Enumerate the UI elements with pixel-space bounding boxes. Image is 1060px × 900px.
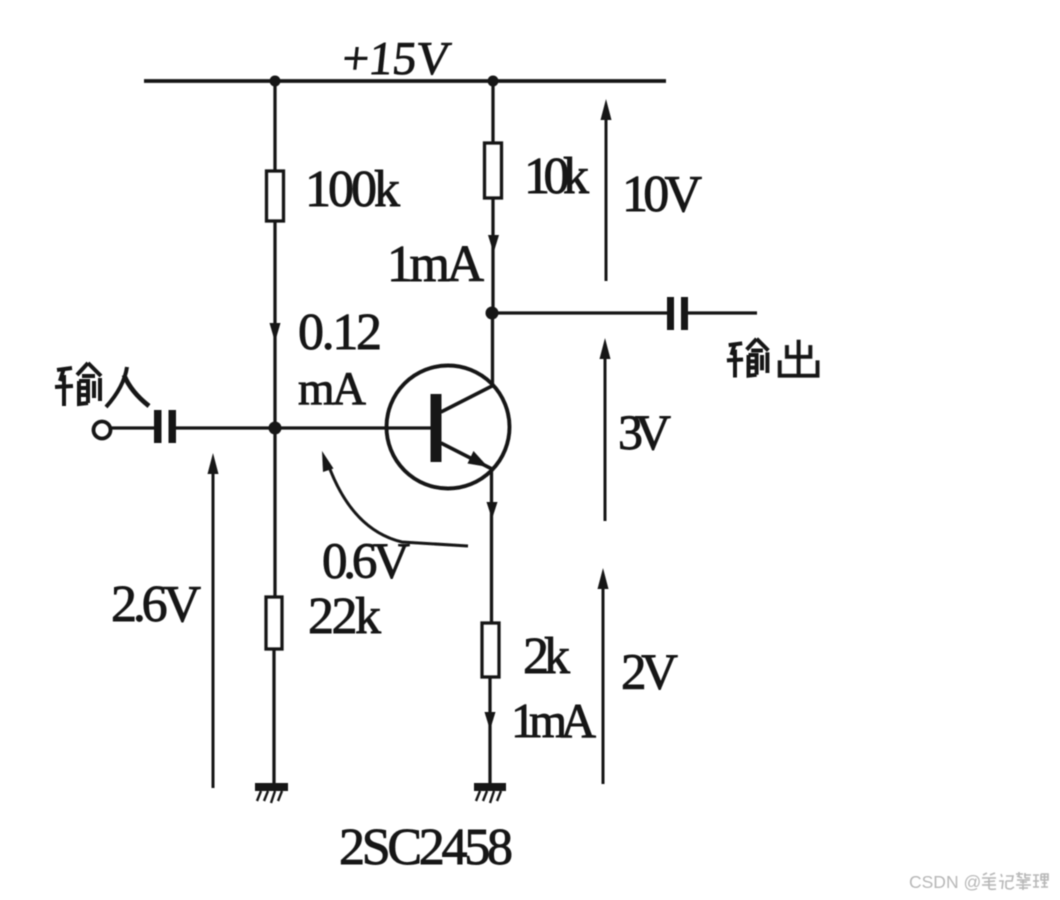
svg-text:2V: 2V	[621, 645, 678, 701]
svg-text:2SC2458: 2SC2458	[339, 819, 513, 876]
svg-text:3V: 3V	[618, 404, 671, 460]
svg-text:0.12: 0.12	[298, 304, 382, 361]
svg-text:1mA: 1mA	[511, 693, 597, 748]
svg-text:2.6V: 2.6V	[111, 576, 201, 633]
svg-text:mA: mA	[298, 363, 366, 415]
svg-text:100k: 100k	[305, 161, 400, 218]
svg-text:+15V: +15V	[340, 33, 453, 85]
svg-text:1mA: 1mA	[387, 236, 484, 293]
svg-text:22k: 22k	[308, 588, 381, 645]
svg-text:CSDN @: CSDN @	[909, 872, 981, 892]
svg-text:2k: 2k	[523, 628, 570, 685]
svg-text:0.6V: 0.6V	[322, 534, 410, 590]
svg-text:10k: 10k	[524, 148, 589, 205]
svg-text:10V: 10V	[622, 166, 702, 223]
